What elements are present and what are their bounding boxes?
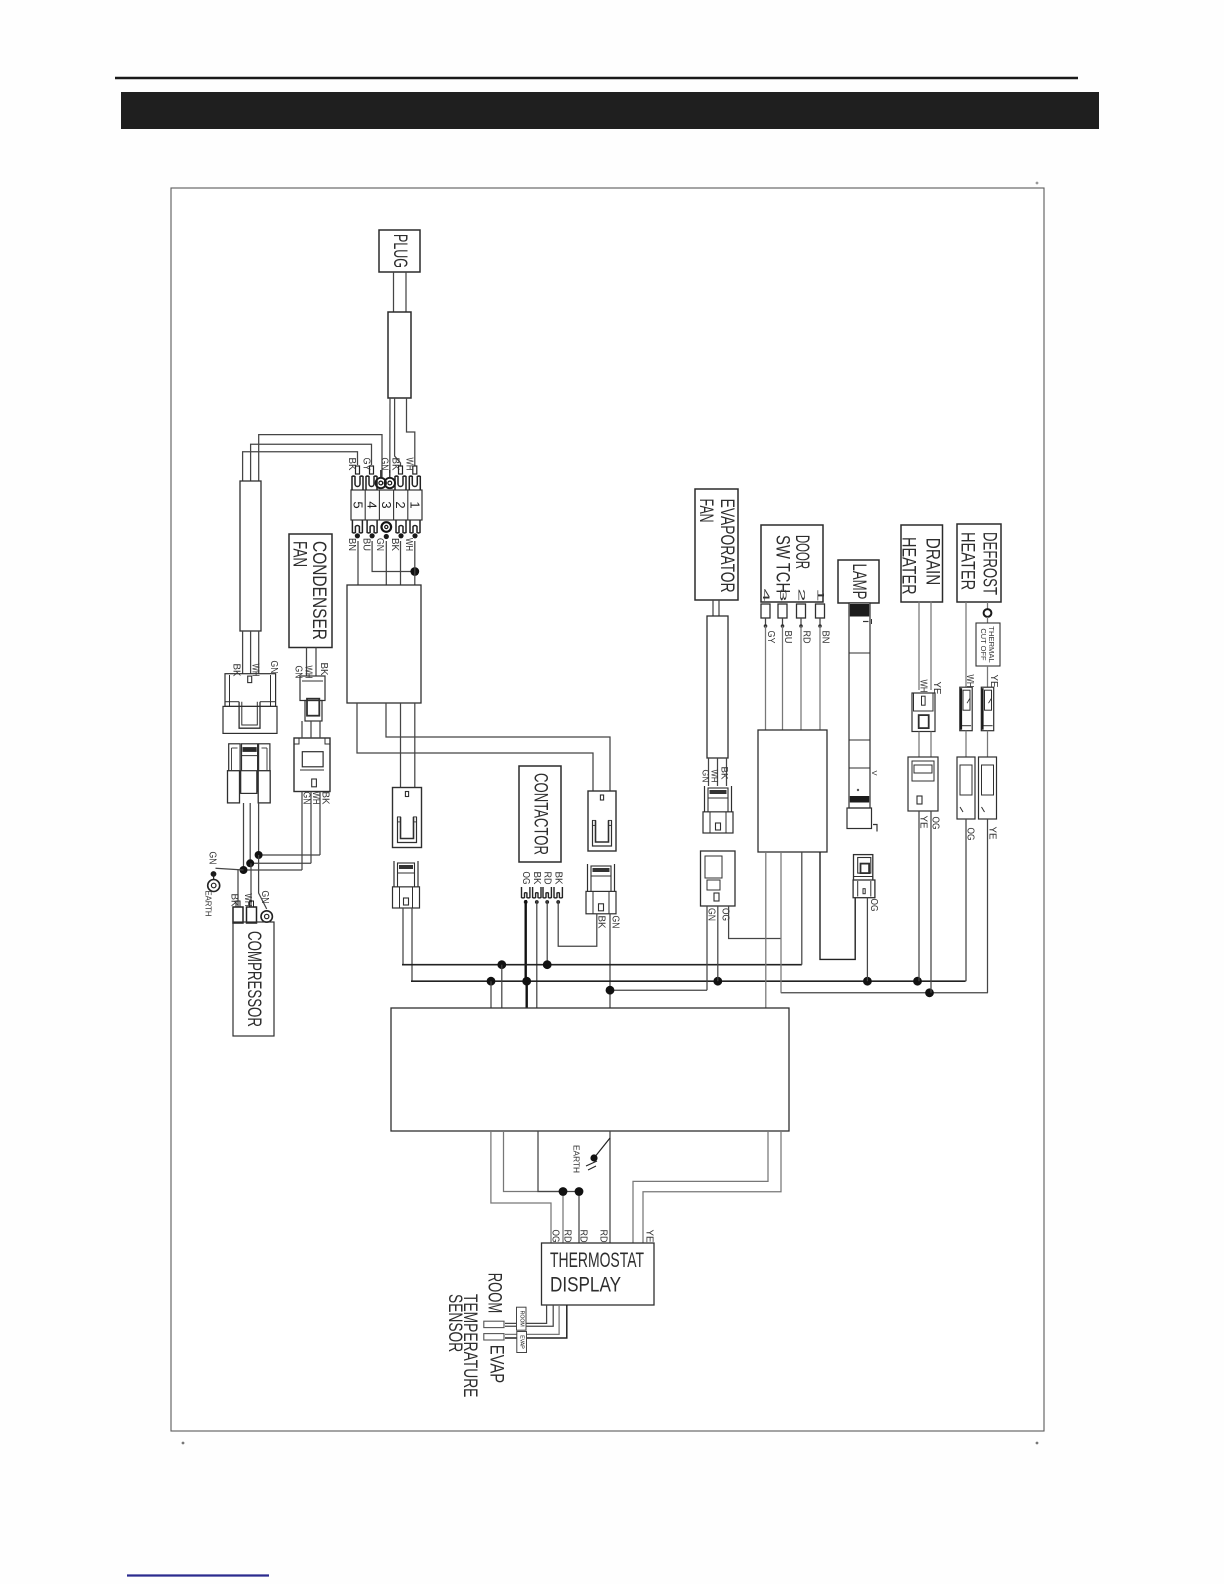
svg-text:DISPLAY: DISPLAY [550, 1274, 621, 1297]
svg-text:GY: GY [361, 458, 372, 471]
svg-text:EARTH: EARTH [204, 891, 213, 917]
svg-text:BK: BK [531, 872, 542, 885]
svg-text:2: 2 [393, 501, 408, 508]
svg-text:WH: WH [918, 680, 929, 693]
svg-text:DOOR: DOOR [791, 535, 812, 569]
svg-text:1: 1 [407, 501, 422, 508]
svg-text:RD: RD [562, 1230, 573, 1243]
svg-text:ROOM: ROOM [484, 1273, 505, 1313]
svg-text:COMPRESSOR: COMPRESSOR [243, 931, 264, 1027]
svg-text:GN: GN [374, 538, 385, 551]
svg-text:DRAIN: DRAIN [921, 538, 942, 586]
svg-text:HEATER: HEATER [956, 532, 977, 590]
svg-text:BK: BK [552, 872, 563, 885]
svg-text:HEATER: HEATER [898, 537, 919, 595]
svg-text:SENSOR: SENSOR [444, 1294, 465, 1352]
svg-text:3: 3 [379, 501, 394, 508]
svg-text:BK: BK [346, 458, 357, 471]
svg-text:GN: GN [207, 852, 218, 865]
svg-text:GN: GN [610, 916, 621, 929]
svg-text:3: 3 [777, 589, 788, 602]
svg-text:RD: RD [578, 1230, 589, 1243]
svg-text:EVAP: EVAP [519, 1335, 525, 1349]
svg-text:BU: BU [360, 538, 371, 551]
svg-text:WH: WH [964, 675, 975, 688]
svg-text:BK: BK [320, 792, 331, 805]
svg-text:EVAP: EVAP [486, 1345, 507, 1383]
svg-text:YE: YE [987, 827, 998, 840]
svg-text:WH: WH [242, 894, 253, 907]
svg-text:DEFROST: DEFROST [978, 532, 999, 595]
svg-text:BK: BK [389, 538, 400, 551]
svg-text:RD: RD [541, 872, 552, 885]
svg-text:WH: WH [403, 538, 414, 551]
svg-text:GN: GN [293, 666, 304, 679]
svg-text:GN: GN [268, 661, 279, 674]
svg-text:BU: BU [782, 631, 793, 644]
svg-text:OG: OG [868, 899, 879, 912]
svg-text:RD: RD [801, 631, 812, 644]
svg-text:2: 2 [796, 589, 807, 602]
svg-text:BK: BK [231, 664, 242, 677]
svg-text:GY: GY [765, 631, 776, 644]
svg-text:RD: RD [598, 1230, 609, 1243]
svg-text:WH: WH [310, 792, 321, 805]
svg-text:EVAPORATOR: EVAPORATOR [716, 499, 737, 593]
svg-text:5: 5 [351, 501, 366, 508]
svg-text:BK: BK [318, 663, 329, 676]
svg-text:4: 4 [365, 501, 380, 508]
svg-text:WH: WH [303, 666, 314, 679]
svg-text:CONDENSER: CONDENSER [308, 541, 329, 640]
svg-text:WH: WH [709, 770, 720, 783]
svg-text:OG: OG [550, 1230, 561, 1243]
svg-text:BK: BK [390, 458, 401, 471]
svg-text:GN: GN [379, 458, 390, 471]
svg-text:LAMP: LAMP [848, 564, 869, 600]
svg-text:BK: BK [229, 894, 240, 907]
svg-text:PLUG: PLUG [389, 234, 410, 268]
svg-text:WH: WH [250, 664, 261, 677]
svg-text:BK: BK [719, 767, 730, 781]
svg-text:YE: YE [644, 1230, 655, 1243]
svg-text:V: V [870, 770, 879, 775]
svg-text:FAN: FAN [695, 499, 716, 523]
svg-text:FAN: FAN [289, 541, 310, 567]
svg-text:THERMOSTAT: THERMOSTAT [550, 1249, 644, 1272]
svg-text:BN: BN [820, 631, 831, 644]
svg-text:ROOM: ROOM [518, 1311, 524, 1327]
svg-text:CUT OFF: CUT OFF [979, 628, 988, 661]
svg-text:4: 4 [760, 589, 771, 602]
svg-text:SW TCH: SW TCH [771, 535, 792, 593]
svg-text:BN: BN [346, 538, 357, 551]
svg-text:YE: YE [988, 675, 999, 688]
svg-text:EARTH: EARTH [572, 1145, 581, 1173]
svg-text:WH: WH [404, 458, 415, 471]
svg-text:GN: GN [259, 891, 270, 904]
svg-text:OG: OG [520, 872, 531, 885]
svg-text:1: 1 [815, 589, 826, 602]
svg-text:CONTACTOR: CONTACTOR [530, 773, 551, 855]
